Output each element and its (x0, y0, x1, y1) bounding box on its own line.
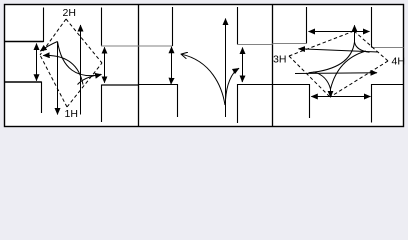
svg-text:1H: 1H (65, 108, 78, 120)
svg-text:3H: 3H (273, 54, 286, 66)
svg-text:2H: 2H (63, 7, 76, 19)
svg-text:4H: 4H (392, 56, 405, 68)
